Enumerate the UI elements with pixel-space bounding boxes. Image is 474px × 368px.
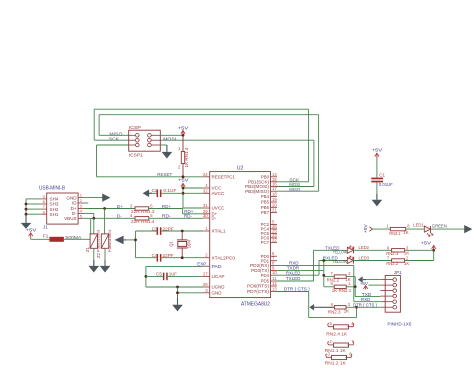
svg-text:24: 24: [203, 172, 208, 177]
svg-text:RESETPC1: RESETPC1: [212, 174, 236, 179]
power +5V at LED1 (rotated): [363, 224, 373, 233]
svg-text:GREEN: GREEN: [432, 224, 447, 229]
fuse F1 500MA: [49, 237, 64, 242]
pin UGND (pin 28) of U2: [203, 282, 225, 290]
connector ICSP1 header: [129, 130, 161, 151]
node C5 junction: [145, 275, 148, 278]
svg-text:D+: D+: [117, 204, 123, 209]
wire LED3 to RN2.2: [354, 260, 392, 262]
svg-text:0.1UF: 0.1UF: [163, 188, 176, 193]
wire +5V to fuse F1: [31, 238, 50, 240]
svg-text:21: 21: [272, 208, 277, 213]
svg-text:MOSI: MOSI: [163, 137, 176, 143]
power +5V at fuse: [29, 233, 33, 238]
wire RN2.3 to +5V: [405, 249, 434, 251]
wire USB shield to ground: [26, 199, 41, 223]
ground at crystal: [115, 236, 126, 245]
svg-text:+5V: +5V: [26, 228, 37, 233]
power +5V at C1: [375, 153, 379, 158]
svg-text:+5V: +5V: [178, 125, 189, 130]
svg-text:PGB1010604: PGB1010604: [108, 230, 112, 252]
capacitor C3 22PF: [157, 227, 162, 235]
power +5V at JP1: [360, 281, 369, 290]
svg-text:13: 13: [272, 287, 277, 292]
svg-text:USB-MINI-B: USB-MINI-B: [39, 185, 66, 191]
resistor RN2.1 1K: [334, 285, 346, 288]
pin PC7 (pin 22) of U2: [261, 237, 278, 245]
wire +5V rail down to LED3 row: [433, 250, 435, 260]
wire PAD to C5 rail: [146, 266, 203, 287]
capacitor C2 0.1UF: [149, 190, 184, 198]
pin numbers J1 right: [80, 193, 83, 219]
svg-text:RN1.2 1K: RN1.2 1K: [325, 360, 346, 365]
ground at Z2: [100, 260, 111, 273]
wire XTAL2 net: [136, 257, 204, 259]
svg-text:10: 10: [272, 270, 277, 275]
svg-text:PD4: PD4: [261, 273, 270, 278]
wire bottom loop: [309, 307, 357, 317]
svg-text:12: 12: [272, 281, 277, 286]
svg-text:LED1: LED1: [413, 222, 424, 227]
svg-text:ATMEGA8U2: ATMEGA8U2: [241, 301, 270, 307]
svg-text:1K: 1K: [403, 230, 408, 235]
svg-text:+5V: +5V: [363, 224, 368, 233]
wire GND net: [178, 287, 204, 305]
svg-text:YELLOW: YELLOW: [333, 259, 348, 264]
pin PD7(CTS) (pin 13) of U2: [247, 287, 277, 295]
resistor RN2.2 1K of LED3 row: [392, 259, 405, 262]
svg-text:VCC: VCC: [212, 186, 222, 191]
wire TXD net to JP1: [355, 287, 380, 297]
resistor RN1.1 1K (spare): [328, 342, 354, 348]
svg-text:TXDR: TXDR: [287, 266, 300, 271]
svg-text:ICSP: ICSP: [129, 125, 141, 131]
svg-text:Q1: Q1: [168, 240, 173, 246]
svg-text:31: 31: [203, 203, 208, 208]
wire LED1 to ground: [431, 228, 465, 230]
pin AVCC (pin 32) of U2: [203, 188, 225, 196]
node GND junction: [176, 291, 179, 294]
svg-text:PGB1010603: PGB1010603: [97, 230, 101, 252]
wire MISO net loop (ICSP to U2 PB3): [99, 115, 319, 192]
connector JP1 PINHD-1X6: [380, 275, 400, 312]
pin PD0 (pin 6) of U2: [261, 251, 277, 259]
pin XTAL2PC0 (pin 2) of U2: [203, 253, 235, 261]
wire MOSI net (ICSP to U2 PB2): [160, 140, 314, 186]
svg-text:MISO: MISO: [109, 131, 122, 137]
wire RN2.2 to +5V rail: [405, 260, 434, 262]
svg-text:LED2: LED2: [359, 245, 370, 250]
wire UGND net: [146, 286, 203, 288]
ground at ICSP pin6: [162, 145, 173, 159]
ground at Z1: [89, 260, 100, 273]
pin PC6 (pin 23) of U2: [261, 233, 278, 241]
pin PC5 (pin 25) of U2: [261, 228, 278, 236]
node RN pair right junction: [354, 285, 357, 288]
resistor RN3.1 1K: [390, 227, 405, 230]
svg-text:32: 32: [203, 188, 208, 193]
wire USB D- jog: [84, 213, 94, 218]
svg-text:+5V: +5V: [360, 281, 369, 286]
led LED2 YELLOW: [347, 246, 354, 253]
pin VCC (pin 4) of U2: [203, 183, 221, 191]
wire LED3 row to RN2.2 pair: [323, 261, 325, 287]
wire SCK net loop (ICSP to U2 PB1): [94, 109, 308, 182]
pin PD5 (pin 11) of U2: [261, 276, 277, 284]
svg-text:D-: D-: [117, 214, 122, 219]
svg-text:1K: 1K: [404, 261, 409, 266]
wire +5V to VCC AVCC UVCC: [183, 186, 203, 208]
svg-text:YELLOW: YELLOW: [333, 249, 348, 254]
svg-text:27: 27: [203, 271, 208, 276]
resistor RN1.2 1K (spare): [326, 354, 352, 360]
node shield junction 3: [25, 213, 28, 216]
ic U2 ATMEGA8U2 body: [210, 172, 271, 298]
node D+/Z2 junction: [103, 207, 106, 210]
arrow left at RN2.3: [309, 304, 334, 310]
svg-text:PD7(CTS): PD7(CTS): [247, 289, 270, 294]
node VCC junction: [182, 187, 185, 190]
svg-text:17: 17: [272, 186, 277, 191]
resistor RN2.4 1K (spare): [328, 323, 354, 329]
node junction on RXLED row: [322, 259, 325, 262]
node XTAL2/crystal junction: [181, 256, 184, 259]
pin PB4 (pin 18) of U2: [261, 192, 278, 200]
ground at C2: [143, 190, 152, 198]
wire RXLED net (U2 PD4 to LED3): [277, 261, 347, 276]
resistor RN1.4 22R: [135, 217, 149, 220]
wire USB GND pin: [84, 197, 104, 199]
pin PC2 (pin 5) of U2: [261, 219, 277, 227]
pin PD6(RTS) (pin 12) of U2: [247, 281, 277, 289]
svg-text:1K RN2.1: 1K RN2.1: [332, 288, 352, 293]
resistor RN1.3 22R: [135, 207, 149, 210]
svg-text:F1: F1: [43, 234, 49, 239]
node XTAL1/crystal junction: [181, 230, 184, 233]
svg-text:RN2.2: RN2.2: [386, 261, 399, 266]
ground at C1: [372, 194, 383, 206]
svg-text:AVCC: AVCC: [212, 191, 225, 196]
svg-text:DTR ( CTS ): DTR ( CTS ): [353, 302, 377, 307]
wire USB ID stub: [84, 202, 89, 204]
svg-text:C2: C2: [152, 188, 158, 193]
resistor RN2.3 1K: [392, 249, 405, 252]
svg-text:SCK: SCK: [109, 137, 120, 143]
svg-text:30: 30: [203, 213, 208, 218]
wire fuse to VBUS: [64, 218, 91, 239]
crystal Q1 16M: [177, 231, 188, 258]
pin D- (pin 30) of U2: [203, 213, 217, 221]
wire ICSP +5V pin stub: [160, 134, 183, 136]
node RESET/RN1.4 junction: [182, 175, 185, 178]
pin PB6 (pin 20) of U2: [261, 202, 278, 210]
wire D+ net from USB: [84, 208, 135, 210]
node D-/Z1 junction: [92, 217, 95, 220]
svg-text:18: 18: [272, 192, 277, 197]
svg-text:PC7: PC7: [261, 240, 270, 245]
svg-text:TXD: TXD: [362, 292, 372, 297]
svg-text:LED3: LED3: [359, 256, 370, 261]
svg-text:VBUS: VBUS: [64, 216, 77, 221]
arrow left at JP1 pin1: [358, 276, 366, 282]
svg-text:TXLED: TXLED: [286, 276, 301, 281]
wire D- net from USB VBUS row: [84, 217, 135, 219]
wire TXDR net (U2 PD3 down): [277, 269, 324, 271]
svg-text:PB4: PB4: [261, 194, 270, 199]
pin PAD (pad) of U2: [203, 264, 221, 269]
svg-text:DTR ( CTS ): DTR ( CTS ): [284, 287, 310, 292]
pin PB7 (pin 21) of U2: [261, 208, 278, 216]
svg-text:C1: C1: [379, 173, 385, 178]
node shield junction 2: [25, 208, 28, 211]
svg-text:C5: C5: [156, 272, 162, 277]
svg-text:PB5: PB5: [261, 200, 270, 205]
svg-text:C3: C3: [152, 226, 158, 231]
varistor Z1 PGB1010603: [90, 218, 97, 266]
capacitor C4 22PF: [157, 254, 162, 262]
pin PB3(MISO) (pin 17) of U2: [245, 186, 277, 194]
wire DTR net (U2 PD7 down): [277, 292, 309, 318]
svg-text:22PF: 22PF: [163, 226, 174, 231]
svg-text:22PF: 22PF: [163, 253, 174, 258]
svg-text:+5V: +5V: [178, 177, 189, 182]
pin PD1 (pin 7) of U2: [261, 256, 277, 264]
svg-text:RXD: RXD: [361, 297, 371, 302]
svg-text:RD-: RD-: [184, 214, 192, 219]
pin PB5 (pin 19) of U2: [261, 197, 278, 205]
wire TXLED net (U2 PD5 to LED2): [277, 250, 347, 281]
ground at USB GND pin: [102, 194, 110, 202]
node RN pair left junction: [322, 274, 325, 277]
wire RN pair right rail: [346, 277, 355, 287]
pin XTAL1 (pin 1) of U2: [203, 226, 226, 234]
power +5V at ICSP: [181, 131, 185, 136]
node RN2.3/JP1 junction: [355, 306, 358, 309]
svg-text:RN2.2: RN2.2: [327, 277, 340, 282]
capacitor C1 0.01UF: [371, 158, 383, 200]
pin PD4 (pin 10) of U2: [261, 270, 278, 278]
svg-text:D-: D-: [212, 216, 217, 221]
svg-text:GND: GND: [212, 290, 222, 295]
wire RESET net (ICSP pin5 to U2 pin24): [97, 145, 204, 177]
svg-text:PB3(MISO): PB3(MISO): [245, 189, 270, 194]
svg-text:RN2.3: RN2.3: [328, 310, 341, 315]
svg-text:C4: C4: [152, 253, 158, 258]
svg-text:PB7: PB7: [261, 210, 270, 215]
resistor RN2.3 1K of DTR row: [334, 306, 346, 309]
svg-text:19: 19: [272, 197, 277, 202]
pin PB2(MOSI) (pin 16) of U2: [245, 182, 277, 190]
svg-text:RN2.4 1K: RN2.4 1K: [326, 332, 347, 337]
svg-text:UGND: UGND: [212, 285, 225, 290]
svg-text:22R RN1.4: 22R RN1.4: [131, 219, 155, 224]
power +5V at LED rail: [432, 246, 436, 251]
svg-text:XTAL1: XTAL1: [212, 229, 227, 234]
svg-text:PINHD-1X6: PINHD-1X6: [387, 322, 411, 327]
resistor RN2.2 1K: [334, 275, 346, 278]
led LED3 YELLOW: [347, 256, 354, 263]
varistor Z2 PGB1010604: [101, 209, 108, 266]
svg-text:UCAP: UCAP: [212, 274, 225, 279]
pin RESETPC1 (pin 24) of U2: [203, 172, 236, 180]
ground at U2 GND: [172, 298, 183, 311]
svg-text:PAD: PAD: [212, 264, 222, 269]
ground arrow right of LED1: [464, 225, 472, 233]
svg-text:MISO: MISO: [289, 187, 300, 192]
svg-text:+5V: +5V: [372, 147, 383, 152]
power +5V at U2 VCC rail: [181, 183, 185, 188]
wire ICSP GND stub: [160, 144, 167, 146]
capacitor C5 1UF: [163, 273, 168, 281]
svg-text:RXLED: RXLED: [286, 270, 301, 275]
svg-text:RESET: RESET: [157, 172, 172, 178]
pin UCAP (pin 27) of U2: [203, 271, 225, 279]
wire RD- to U2 D-: [149, 217, 203, 219]
svg-text:XTAL2PC0: XTAL2PC0: [212, 255, 236, 260]
svg-text:1UF: 1UF: [169, 272, 177, 277]
svg-text:UVCC: UVCC: [212, 206, 225, 211]
pin PD2(RX) (pin 8) of U2: [250, 260, 277, 268]
wire XTAL1 net: [136, 230, 204, 232]
svg-text:SH1: SH1: [50, 212, 59, 217]
svg-text:1K: 1K: [344, 309, 349, 314]
svg-text:22: 22: [272, 237, 277, 242]
wire UCAP net: [146, 275, 203, 277]
pin D+ (pin 29) of U2: [203, 209, 218, 217]
svg-text:+5V: +5V: [421, 240, 432, 245]
pin PD3(TX) (pin 9) of U2: [251, 265, 277, 273]
node AVCC junction: [182, 192, 185, 195]
wire RD+ to U2 D+: [148, 209, 203, 214]
svg-text:RN3.1: RN3.1: [389, 231, 400, 236]
led LED1 GREEN: [424, 226, 433, 236]
resistor RN1.4 1K pull-up: [181, 135, 184, 177]
wire JP1 pin2 +5V: [369, 284, 381, 286]
node shield junction 1: [25, 203, 28, 206]
svg-text:1K RN1.4: 1K RN1.4: [184, 147, 189, 168]
pin GND (pin 3) of U2: [203, 288, 221, 296]
pin PC4 (pin 26) of U2: [261, 224, 278, 232]
svg-text:Z1: Z1: [85, 246, 90, 252]
svg-text:Z2: Z2: [96, 252, 101, 258]
node junction +5V/RN1.4: [182, 134, 185, 137]
svg-text:JP1: JP1: [394, 270, 402, 275]
pin numbers J1 left: [43, 194, 46, 214]
svg-text:28: 28: [203, 282, 208, 287]
node ground rail junction: [134, 239, 137, 242]
connector J1 USB-MINI-B: [41, 193, 83, 224]
ground at USB shield: [21, 214, 32, 229]
pin PB0 (pin 14) of U2: [261, 172, 278, 180]
svg-text:ICSP1: ICSP1: [129, 152, 143, 158]
svg-text:PD6(RTS): PD6(RTS): [247, 284, 270, 289]
svg-text:ID: ID: [72, 201, 77, 206]
svg-text:0.01UF: 0.01UF: [379, 182, 393, 187]
wire +5V to RN3.1: [372, 228, 391, 230]
wire crystal ground rail: [125, 231, 135, 258]
svg-text:J1: J1: [43, 224, 48, 229]
svg-text:GND: GND: [66, 195, 77, 200]
wire RN pair left rail: [324, 277, 334, 287]
wire RN3.1 to LED1: [406, 228, 425, 230]
svg-text:U2: U2: [237, 165, 244, 171]
wire RXD net (U2 PD2 to JP1): [277, 265, 380, 301]
node UGND junction: [176, 286, 179, 289]
node LED rail junction: [432, 249, 435, 252]
pin UVCC (pin 31) of U2: [203, 203, 225, 211]
wire JP1 pin1: [364, 279, 381, 281]
wire RN2.3 to JP1 pin6: [346, 306, 380, 308]
wire LED2 to RN2.3: [354, 249, 392, 251]
pin PB1(SCK) (pin 15) of U2: [248, 177, 277, 185]
svg-text:16M: 16M: [186, 240, 191, 248]
